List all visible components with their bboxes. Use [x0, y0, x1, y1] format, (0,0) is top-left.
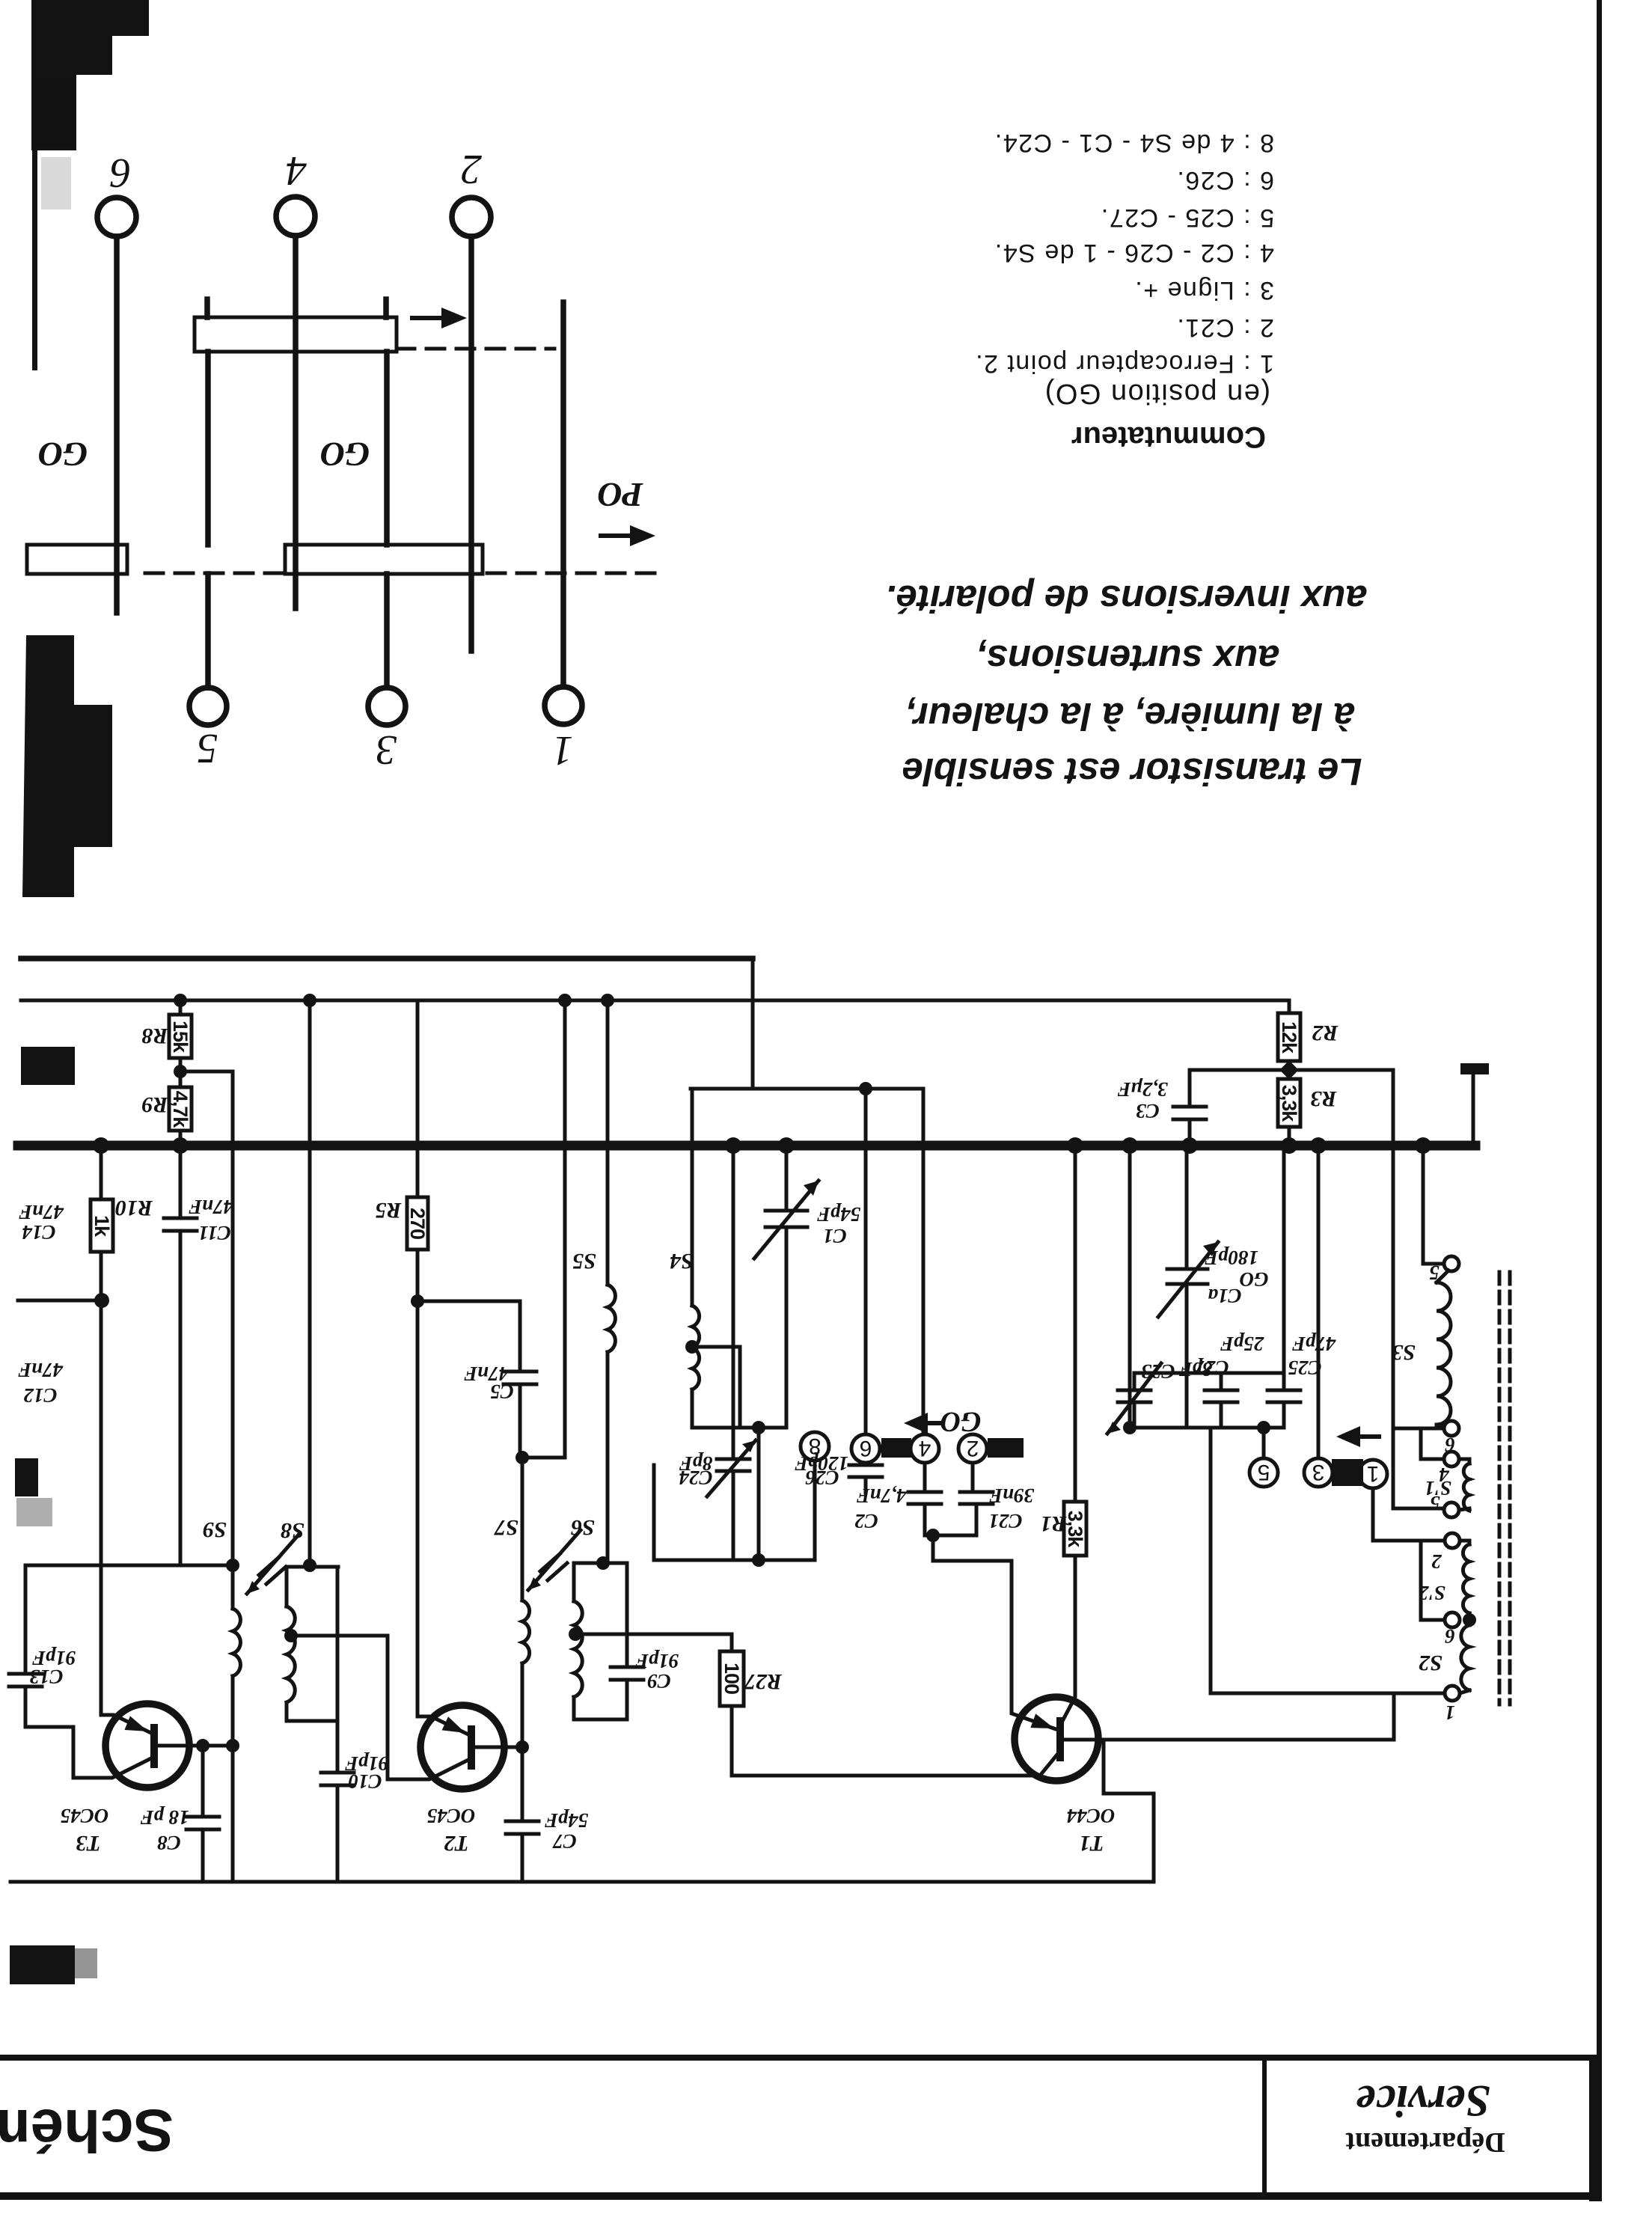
- svg-text:C14: C14: [22, 1221, 55, 1244]
- svg-text:54pF: 54pF: [545, 1809, 589, 1832]
- resistor R1: [1074, 1146, 1077, 1502]
- switch wiper bar left (contact 6): [27, 545, 127, 574]
- svg-text:1: 1: [1367, 1461, 1380, 1486]
- svg-text:1: 1: [552, 727, 573, 774]
- svg-text:GO: GO: [940, 1406, 982, 1437]
- svg-text:(en position GO): (en position GO): [1044, 378, 1270, 409]
- node S4 tap: [685, 1340, 699, 1354]
- svg-text:C8: C8: [157, 1832, 181, 1854]
- svg-text:Service: Service: [1356, 2076, 1490, 2126]
- capacitor C3: [1188, 1070, 1192, 1107]
- svg-text:C13: C13: [29, 1666, 63, 1688]
- wire S8 tap to T2: [291, 1636, 388, 1779]
- capacitor C1a (variable GO padder): [1185, 1146, 1189, 1269]
- node on bus at ferro feed: [1122, 1137, 1138, 1154]
- svg-text:3,2µF: 3,2µF: [1117, 1078, 1168, 1101]
- capacitor C8: [201, 1746, 205, 1817]
- svg-text:R3: R3: [1310, 1086, 1337, 1111]
- switch contact 3 stem: [384, 574, 390, 687]
- wire 2-6 link: [1421, 1541, 1445, 1620]
- node on H3: [859, 1082, 872, 1095]
- svg-text:Schém: Schém: [0, 2097, 174, 2164]
- capacitor C1 (variable, 54pF): [785, 1146, 789, 1211]
- node on bus at R1: [1067, 1137, 1083, 1154]
- svg-text:OC44: OC44: [1067, 1805, 1116, 1827]
- svg-text:2: 2: [967, 1436, 979, 1461]
- svg-text:5 : C25 - C27.: 5 : C25 - C27.: [1100, 204, 1274, 232]
- inductor S3: [1423, 1146, 1443, 1264]
- resistor R5: [416, 1000, 420, 1197]
- node on bus at C24: [725, 1137, 741, 1154]
- switch contact 6 stem: [114, 236, 120, 613]
- svg-text:S5: S5: [572, 1249, 596, 1273]
- svg-text:C27: C27: [1194, 1357, 1229, 1379]
- switch contact 1 circle: [545, 687, 582, 724]
- wire ferro line cut at edge: [18, 1299, 102, 1303]
- svg-text:4: 4: [919, 1436, 931, 1461]
- page left border line (scan edge): [1597, 0, 1602, 2200]
- terminal circle 8: [813, 1461, 817, 1560]
- link bar 6-4: [881, 1438, 911, 1458]
- svg-text:2: 2: [1431, 1550, 1443, 1573]
- svg-text:S8: S8: [281, 1518, 305, 1543]
- capacitor C26: [864, 1089, 868, 1434]
- switch contact 4 stem: [293, 236, 299, 608]
- wire osc lower link: [654, 1465, 815, 1560]
- wire R8-R9 junction: [179, 1058, 183, 1087]
- switch wiper bar GO lower: [285, 545, 483, 574]
- wiper bar ticks: [207, 299, 386, 317]
- ferrite rod (dashed): [1499, 1272, 1510, 1704]
- svg-text:4 : C2 - C26 - 1 de S4.: 4 : C2 - C26 - 1 de S4.: [994, 239, 1274, 267]
- capacitor C10: [336, 1721, 340, 1773]
- resistor R27: [575, 1634, 732, 1651]
- node on bus at R9: [172, 1137, 189, 1154]
- svg-text:5: 5: [1430, 1492, 1440, 1514]
- svg-text:6 : C26.: 6 : C26.: [1176, 166, 1274, 195]
- svg-text:R5: R5: [375, 1198, 402, 1223]
- svg-text:270: 270: [406, 1208, 429, 1239]
- svg-text:4: 4: [286, 147, 307, 194]
- svg-text:4,7k: 4,7k: [169, 1091, 192, 1129]
- capacitor C13: [24, 1565, 28, 1674]
- node on H2 at S8 feed: [303, 994, 316, 1007]
- wire R10 to T3 collector: [100, 1300, 103, 1715]
- travel dashed line upper: [397, 347, 554, 351]
- svg-text:47nF: 47nF: [189, 1196, 234, 1218]
- wire ferrocapteur 1 to S'2: [1373, 1488, 1445, 1541]
- node on bus at R3: [1281, 1137, 1297, 1154]
- wire oscillator rail H3: [691, 1087, 922, 1091]
- svg-text:47nF: 47nF: [19, 1201, 64, 1223]
- link bar right of 2: [988, 1438, 1024, 1458]
- wire divider link H6: [1190, 1068, 1393, 1072]
- terminal circle 5: [1262, 1428, 1266, 1458]
- travel dashed line lower: [145, 572, 656, 575]
- switch contact 5 stem: [205, 574, 211, 688]
- ground: [1472, 1074, 1475, 1146]
- ground bus H4 (thick): [18, 1141, 1475, 1151]
- wire S5 feed from H2: [606, 1000, 610, 1285]
- svg-text:91pF: 91pF: [635, 1650, 679, 1672]
- svg-text:S4: S4: [670, 1249, 694, 1273]
- capacitor C25: [1282, 1146, 1286, 1373]
- svg-text:S7: S7: [494, 1515, 518, 1540]
- motion arrow upper: [410, 316, 446, 320]
- svg-text:T1: T1: [1079, 1831, 1104, 1856]
- switch contact 2 stem: [468, 236, 474, 651]
- wire S2 return to T1 emitter: [1211, 1428, 1445, 1693]
- motion arrow PO: [599, 533, 634, 538]
- svg-text:S9: S9: [203, 1517, 227, 1542]
- svg-text:8 : 4 de S4 - C1 - C24.: 8 : 4 de S4 - C1 - C24.: [994, 129, 1274, 157]
- blob bottom-left: [10, 1945, 75, 1984]
- resistor R10: [100, 1146, 103, 1199]
- switch wiper bar GO upper: [195, 317, 397, 352]
- svg-text:6: 6: [1445, 1625, 1455, 1648]
- svg-text:R9: R9: [141, 1092, 168, 1117]
- svg-text:C3: C3: [1136, 1100, 1160, 1122]
- svg-text:100: 100: [721, 1663, 743, 1694]
- svg-text:3 : Ligne +.: 3 : Ligne +.: [1134, 276, 1274, 305]
- blob left middle: [22, 635, 112, 897]
- resistor R8: [179, 1000, 183, 1015]
- node on bus at C3: [1181, 1137, 1198, 1154]
- svg-text:Le transistor est sensible: Le transistor est sensible: [902, 750, 1362, 793]
- svg-text:GO: GO: [1240, 1268, 1269, 1291]
- node on bus at S3: [1415, 1137, 1431, 1154]
- node on H2 at S5 feed: [601, 994, 614, 1007]
- node on bus at R10: [93, 1137, 109, 1154]
- wire S4 tap loop: [692, 1347, 740, 1428]
- svg-text:6: 6: [110, 150, 131, 196]
- svg-text:C21: C21: [988, 1510, 1022, 1532]
- wire C2/C21 junction to T1: [925, 1534, 976, 1538]
- svg-text:3: 3: [376, 727, 397, 773]
- switch contact 5 circle: [189, 688, 227, 725]
- wire S7 feed from H2: [522, 1000, 565, 1458]
- svg-text:3: 3: [1312, 1460, 1325, 1484]
- svg-text:4,7nF: 4,7nF: [857, 1484, 908, 1507]
- svg-text:R1: R1: [1040, 1511, 1067, 1536]
- svg-text:C23: C23: [1141, 1360, 1175, 1383]
- svg-text:R2: R2: [1312, 1021, 1339, 1045]
- svg-text:54pF: 54pF: [817, 1203, 861, 1226]
- wire from H1 corner down: [751, 958, 755, 1089]
- svg-text:C12: C12: [23, 1384, 57, 1407]
- wiper bar link stems: [208, 352, 387, 545]
- svg-text:180pF: 180pF: [1205, 1247, 1258, 1269]
- blob left of schematic: [21, 1047, 75, 1085]
- svg-text:Commutateur: Commutateur: [1071, 421, 1266, 453]
- node on H2 at R8: [174, 994, 187, 1007]
- svg-text:18 pF: 18 pF: [140, 1806, 189, 1829]
- svg-text:C1: C1: [823, 1225, 847, 1247]
- inductor S2: [1468, 1620, 1472, 1625]
- svg-text:S2: S2: [1419, 1651, 1443, 1675]
- svg-text:C24: C24: [679, 1467, 712, 1489]
- terminal circle 1: [1359, 1460, 1387, 1488]
- node on bus at term3: [1310, 1137, 1327, 1154]
- svg-text:PO: PO: [597, 476, 643, 514]
- svg-text:à la lumière, à la chaleur,: à la lumière, à la chaleur,: [905, 695, 1355, 738]
- wire AGC branch to S9: [180, 1071, 233, 1565]
- svg-text:GO: GO: [320, 435, 370, 474]
- svg-text:C10: C10: [348, 1770, 382, 1793]
- capacitor C7: [506, 1821, 539, 1834]
- capacitor C5: [417, 1301, 520, 1372]
- band arrow GO right: [1347, 1434, 1381, 1439]
- transistor T2 (OC45): [420, 1705, 504, 1789]
- wire supply rail H2: [21, 999, 1289, 1003]
- switch contact 2 circle: [452, 198, 491, 236]
- node S8 top: [303, 1559, 316, 1572]
- node S6 top: [596, 1556, 610, 1570]
- capacitor C11: [179, 1146, 183, 1218]
- terminal circle 4 and capacitor C2: [922, 1089, 926, 1434]
- resistor R9: [169, 1087, 192, 1131]
- blob artifact streak line: [32, 150, 37, 370]
- wire H6 to S3 bottom: [1392, 1070, 1395, 1508]
- svg-text:2: 2: [461, 146, 482, 192]
- svg-text:R27: R27: [744, 1669, 783, 1694]
- svg-text:T3: T3: [76, 1831, 100, 1856]
- svg-text:5: 5: [1429, 1262, 1440, 1284]
- switch contact 4 circle: [276, 197, 315, 236]
- trimmer S6 core symbol: [540, 1554, 567, 1580]
- svg-text:1 : Ferrocapteur point 2.: 1 : Ferrocapteur point 2.: [975, 349, 1274, 378]
- node on bus at C1: [778, 1137, 795, 1154]
- resistor R3: [1278, 1079, 1300, 1127]
- switch contact 1 stem: [560, 302, 566, 685]
- inductor S7: [521, 1458, 524, 1600]
- wire AGC node row: [25, 1564, 233, 1568]
- svg-text:R10: R10: [115, 1196, 153, 1220]
- inductor S8 tuned loop: [287, 1567, 338, 1721]
- svg-text:C9: C9: [647, 1670, 671, 1693]
- svg-text:C2: C2: [854, 1510, 878, 1532]
- svg-text:S3: S3: [1392, 1340, 1416, 1365]
- svg-text:S6: S6: [571, 1515, 595, 1540]
- svg-text:1k: 1k: [91, 1215, 113, 1238]
- wire R27 to T1 base: [732, 1706, 1040, 1776]
- inductor S4: [691, 1089, 694, 1306]
- blob small left: [15, 1458, 38, 1496]
- inductor S6 tuned loop: [574, 1563, 627, 1719]
- capacitor C9: [625, 1563, 629, 1667]
- transistor T1 (OC44): [1015, 1697, 1098, 1781]
- resistor R2: [1288, 1000, 1291, 1013]
- svg-text:OC45: OC45: [427, 1805, 476, 1827]
- svg-text:GO: GO: [38, 435, 88, 474]
- title block bottom rule: [0, 2192, 1602, 2200]
- node on H2 at S7 feed: [558, 994, 572, 1007]
- terminal circle 3: [1317, 1146, 1321, 1458]
- switch contact 6 circle: [97, 198, 136, 236]
- svg-text:C5: C5: [490, 1380, 514, 1403]
- capacitor C27: [1220, 1373, 1223, 1390]
- svg-text:47nF: 47nF: [18, 1359, 64, 1381]
- title block separator: [1262, 2061, 1267, 2194]
- svg-text:39nF: 39nF: [989, 1484, 1035, 1507]
- wire S8 feed from H2: [308, 1000, 312, 1565]
- wire osc common: [692, 1426, 786, 1430]
- svg-text:1: 1: [1445, 1701, 1455, 1724]
- svg-text:6: 6: [860, 1436, 872, 1461]
- svg-text:5: 5: [197, 725, 218, 771]
- svg-text:aux inversions de polarité.: aux inversions de polarité.: [885, 578, 1366, 620]
- svg-text:2 : C21.: 2 : C21.: [1176, 314, 1274, 342]
- wire ferro feed: [1128, 1146, 1132, 1428]
- capacitor C23 (trimmer): [1133, 1373, 1136, 1390]
- trimmer S8 core symbol: [259, 1558, 286, 1584]
- svg-text:25pF: 25pF: [1220, 1333, 1265, 1355]
- svg-text:3,3k: 3,3k: [1278, 1085, 1300, 1123]
- svg-text:OC45: OC45: [61, 1805, 109, 1827]
- wire emitter riser to C25 return: [1104, 1740, 1154, 1882]
- switch contact 3 circle: [368, 688, 406, 725]
- inductor S'2: [1445, 1533, 1460, 1548]
- svg-text:T2: T2: [444, 1831, 468, 1856]
- wire top rail H1: [21, 955, 753, 961]
- svg-text:C26: C26: [805, 1467, 839, 1489]
- transistor T3 (OC45): [105, 1704, 189, 1788]
- svg-text:47pF: 47pF: [1292, 1333, 1337, 1355]
- terminal circle 2 and capacitor C21: [958, 1434, 987, 1463]
- title block top rule: [0, 2055, 1596, 2061]
- bottom return rail H5: [10, 1880, 1154, 1884]
- svg-text:C7: C7: [552, 1830, 577, 1853]
- svg-text:aux surtensions,: aux surtensions,: [976, 637, 1279, 680]
- trimmer block C23 C27 C25: [1134, 1372, 1284, 1375]
- inductor S'1: [1444, 1452, 1459, 1467]
- link bar 3-1: [1332, 1459, 1363, 1486]
- inductor S9: [231, 1565, 235, 1609]
- svg-text:12k: 12k: [1278, 1021, 1300, 1054]
- svg-text:R8: R8: [141, 1024, 168, 1048]
- capacitor C24 (trimmer): [732, 1146, 735, 1459]
- svg-text:5: 5: [1258, 1460, 1270, 1484]
- svg-text:Département: Département: [1345, 2126, 1505, 2158]
- blob top-left: [31, 0, 149, 150]
- band arrow GO: [914, 1421, 941, 1425]
- inductor S5: [608, 1285, 615, 1352]
- svg-text:15k: 15k: [169, 1021, 192, 1054]
- svg-text:C11: C11: [198, 1222, 231, 1244]
- wire S9 return to rail: [231, 1746, 235, 1882]
- svg-text:C1a: C1a: [1208, 1285, 1241, 1307]
